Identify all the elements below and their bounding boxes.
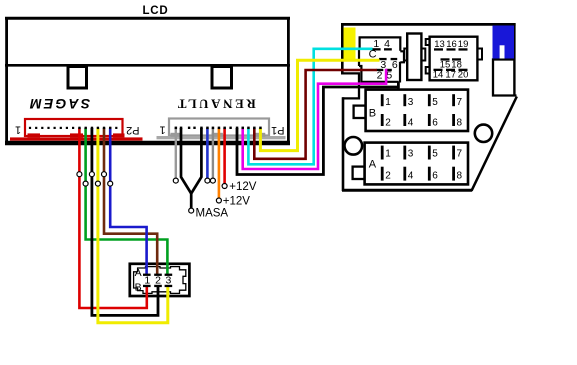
- B block outline: [366, 90, 468, 131]
- svg-text:B: B: [135, 282, 142, 294]
- junction circle on brown wire: [102, 172, 107, 177]
- svg-text:1: 1: [15, 123, 21, 135]
- C block pin labels 3 6: [380, 59, 398, 71]
- terminal circle red supply wire: [222, 184, 227, 189]
- wire brown (SAGEM P2-13 to A2): [104, 128, 157, 275]
- junction circle on yellow wire: [95, 181, 100, 186]
- svg-text:1: 1: [385, 97, 391, 108]
- terminal circle blue wire: [205, 178, 210, 183]
- J1 pin dashes row A: [143, 274, 172, 276]
- SAGEM label (rotated): [28, 96, 90, 112]
- P2 label (rotated): [126, 124, 139, 136]
- connector P2 (SAGEM, red): [10, 119, 143, 141]
- svg-text:6: 6: [432, 117, 438, 128]
- svg-text:20: 20: [458, 70, 469, 81]
- B block label: [369, 107, 376, 119]
- pin 1 label of P2 (rotated): [15, 123, 21, 135]
- J1 row B label: [135, 282, 142, 294]
- A block pin bars row 1: [381, 146, 455, 160]
- +12V label upper: [229, 181, 257, 193]
- wire cyan (P1-13 to C1): [248, 49, 372, 165]
- wire dark red (P1-14 to C2): [254, 70, 377, 159]
- A block label: [369, 158, 377, 170]
- yellow key button: [344, 28, 356, 61]
- A block key tab: [353, 167, 365, 179]
- blue lock button: [493, 26, 515, 59]
- svg-text:3: 3: [165, 275, 171, 287]
- LCD unit box: [5, 17, 290, 145]
- wire yellow (SAGEM P2-12 to B3): [98, 128, 168, 323]
- LCD mounting tab right: [212, 67, 232, 89]
- connector P1 (RENAULT, gray): [157, 119, 286, 140]
- terminal circle gray wire 2: [210, 178, 215, 183]
- junction circle on green wire: [83, 181, 88, 186]
- pin 1 label of P1 (rotated): [159, 123, 165, 135]
- svg-text:1: 1: [144, 275, 150, 287]
- svg-text:2: 2: [155, 275, 161, 287]
- J1 column numbers: [144, 275, 171, 287]
- svg-text:B: B: [369, 107, 376, 119]
- right block pin labels 14 17 20: [433, 70, 469, 81]
- A block outline: [365, 143, 468, 185]
- svg-text:1: 1: [159, 123, 165, 135]
- left guide circle: [345, 137, 363, 155]
- C block pin labels 2 5: [377, 69, 393, 81]
- svg-text:P2: P2: [126, 124, 139, 136]
- C block pin labels 1 4: [373, 38, 390, 50]
- svg-text:2: 2: [377, 69, 383, 81]
- svg-text:2: 2: [385, 117, 391, 128]
- svg-text:8: 8: [457, 117, 463, 128]
- B block pin numbers 2 4 6 8: [385, 117, 462, 128]
- P2 pin dots: [29, 127, 117, 129]
- C block outline: [359, 37, 404, 90]
- svg-text:4: 4: [408, 117, 414, 128]
- svg-text:3: 3: [408, 97, 414, 108]
- SAGEM wired pin dots: [78, 127, 111, 129]
- A block pin numbers 2 4 6 8: [385, 171, 462, 182]
- C block pin dashes 1 4: [372, 48, 392, 50]
- svg-text:17: 17: [445, 70, 456, 81]
- wire magenta (P1-12 to C5): [243, 69, 386, 169]
- svg-text:MASA: MASA: [196, 207, 229, 219]
- wire red (SAGEM P2-9 to B1): [79, 128, 146, 308]
- svg-text:A: A: [369, 158, 377, 170]
- RENAULT label (rotated): [175, 97, 256, 112]
- P1 label (rotated): [271, 124, 284, 136]
- wire black (P1-11 to radio shell): [237, 82, 398, 175]
- J1 pin dashes row B: [143, 285, 172, 287]
- B block pin bars row 2: [381, 114, 455, 126]
- right block pin dashes bottom row: [434, 69, 468, 71]
- small connector J1 inner castellated outline: [134, 267, 186, 294]
- svg-text:+12V: +12V: [223, 195, 251, 207]
- wire yellow (P1-15 to C3): [260, 60, 379, 150]
- LCD unit label: [142, 5, 168, 17]
- A block pin bars row 2: [381, 167, 455, 181]
- svg-text:7: 7: [457, 148, 463, 159]
- svg-text:A: A: [135, 267, 142, 279]
- wire black ground right branch (P1-5): [191, 128, 201, 194]
- svg-text:5: 5: [432, 97, 438, 108]
- wire black ground left branch (P1-2): [181, 128, 191, 194]
- wire orange (P1-8): [218, 128, 221, 198]
- right block pin dashes middle row: [441, 58, 462, 60]
- svg-text:SAGEM: SAGEM: [28, 96, 90, 112]
- svg-text:LCD: LCD: [142, 5, 168, 17]
- right block pin labels 15 18: [440, 60, 462, 71]
- J1 row A label: [135, 267, 142, 279]
- svg-text:4: 4: [408, 171, 414, 182]
- terminal circle orange wire: [216, 198, 221, 203]
- P1 unused pin dots: [188, 127, 232, 129]
- wire gray 2 (P1-7): [212, 128, 214, 178]
- junction circle on red wire: [77, 172, 82, 177]
- terminal circle gray wire: [173, 178, 178, 183]
- right block outline: [426, 37, 482, 81]
- wire green (SAGEM P2-10 to A3): [86, 128, 168, 275]
- wire red supply (P1-9): [223, 128, 226, 184]
- svg-text:5: 5: [432, 148, 438, 159]
- MASA terminal circle: [189, 208, 194, 213]
- svg-text:2: 2: [385, 171, 391, 182]
- svg-text:RENAULT: RENAULT: [175, 97, 256, 112]
- svg-text:3: 3: [408, 148, 414, 159]
- svg-text:1: 1: [385, 148, 391, 159]
- MASA label: [196, 207, 229, 219]
- small connector J1 outer box: [130, 264, 190, 296]
- P1 wired pin dots: [175, 127, 262, 130]
- right block pin labels 13 16 19: [434, 39, 468, 50]
- radio connector outer boundary: [341, 23, 517, 191]
- right block pin dashes top row: [434, 48, 468, 50]
- svg-text:8: 8: [457, 171, 463, 182]
- svg-text:14: 14: [433, 70, 444, 81]
- B block pin numbers 1 3 5 7: [385, 97, 462, 108]
- svg-text:6: 6: [392, 59, 398, 71]
- C block pin dashes 3 6: [379, 58, 397, 60]
- B block pin bars row 1: [381, 94, 455, 106]
- center key piece: [404, 34, 425, 81]
- right guide circle: [475, 125, 492, 142]
- svg-text:P1: P1: [271, 124, 284, 136]
- wire blue (SAGEM P2-14 to A1): [110, 128, 146, 275]
- C block label: [369, 49, 377, 61]
- wire blue (P1-6): [206, 128, 209, 178]
- ground wire merged segment: [190, 192, 193, 208]
- C block pin dashes 2 5: [377, 69, 392, 71]
- +12V label lower: [223, 195, 251, 207]
- LCD mounting tab left: [68, 67, 87, 89]
- wire black (SAGEM P2-11 to B2): [92, 128, 158, 315]
- wire gray (P1-1): [175, 128, 177, 178]
- svg-text:6: 6: [432, 171, 438, 182]
- junction circle on blue wire: [108, 181, 113, 186]
- A block pin numbers 1 3 5 7: [385, 148, 462, 159]
- svg-text:+12V: +12V: [229, 181, 257, 193]
- junction circle on black wire: [89, 172, 94, 177]
- svg-text:7: 7: [457, 97, 463, 108]
- B block key tab: [354, 106, 366, 118]
